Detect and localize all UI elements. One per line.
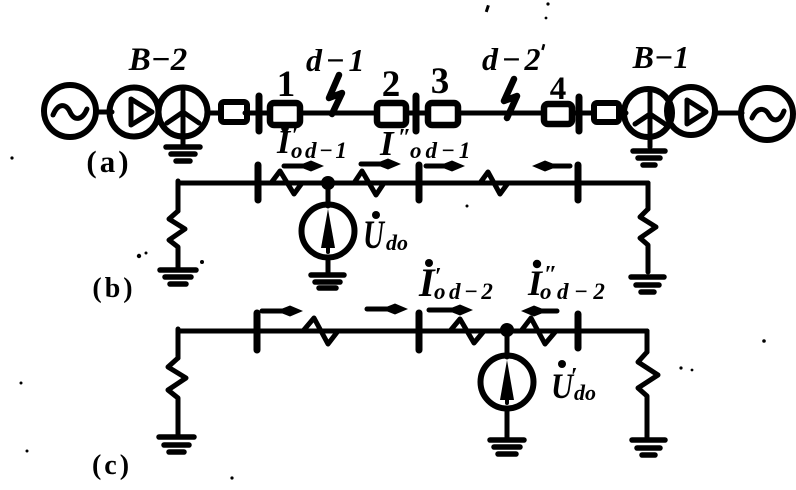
resistor 2 (c) <box>450 319 484 343</box>
ground left (c) <box>159 437 194 452</box>
bus tick 2a <box>413 96 420 131</box>
bus tick 1a <box>256 96 263 131</box>
current arrow 1 (c) <box>262 306 303 317</box>
current arrow mid (b) <box>426 161 465 172</box>
resistor right branch (b) <box>640 209 656 272</box>
wire <box>715 111 742 116</box>
fault bolt d-2 <box>504 79 517 118</box>
breaker 3 <box>428 103 458 125</box>
label U_do <box>363 211 408 257</box>
svg-text:(c): (c) <box>92 450 132 481</box>
svg-text:I: I <box>379 124 395 163</box>
transformer B-1 star winding <box>624 89 672 147</box>
bus tick 1c <box>254 313 261 350</box>
resistor 1 (c) <box>303 318 338 344</box>
ground right (b) <box>631 277 664 292</box>
wire <box>326 257 331 272</box>
wire <box>458 111 544 116</box>
svg-text:2: 2 <box>382 64 401 105</box>
wire main line (b) <box>178 181 648 186</box>
breaker box (right) <box>594 103 619 122</box>
wire source drop (c) <box>505 335 510 357</box>
wire right drop (c) <box>645 331 650 352</box>
current arrow 4 (c, leftward) <box>521 306 557 317</box>
wire <box>96 110 112 115</box>
wire right drop (b) <box>646 183 651 209</box>
source U_do <box>302 205 355 258</box>
resistor left branch (c) <box>168 358 186 434</box>
resistor 1 (b) <box>262 171 302 194</box>
breaker 1 <box>270 103 300 125</box>
ground left (b) <box>160 270 196 284</box>
svg-text:do: do <box>574 380 596 405</box>
current arrow 2 (c) <box>367 304 408 315</box>
breaker box (left) <box>221 102 247 122</box>
label U'_do <box>551 360 596 406</box>
resistor left branch (b) <box>169 211 185 268</box>
label I'od-1 <box>276 123 349 163</box>
generator G2 <box>44 85 96 137</box>
breaker 4 <box>544 104 572 124</box>
wire <box>572 111 594 116</box>
bus tick 3c <box>575 314 582 348</box>
resistor 3 (c) <box>521 318 556 344</box>
svg-text:od−1: od−1 <box>291 138 349 163</box>
generator G1 <box>741 88 793 140</box>
svg-text:d−1: d−1 <box>306 42 368 78</box>
wire <box>619 111 626 116</box>
label I''od-2 <box>527 260 610 304</box>
wire left drop (b) <box>176 181 181 211</box>
resistor right branch (c) <box>638 352 658 437</box>
transformer B-2 delta winding <box>110 88 159 137</box>
wire <box>245 111 270 116</box>
node junction (b) <box>321 176 335 190</box>
source U'_do <box>481 356 534 409</box>
wire left drop (c) <box>176 329 181 358</box>
svg-text:3: 3 <box>431 61 450 102</box>
current arrow I''od-1 <box>361 159 401 170</box>
bus tick 3b <box>575 165 582 200</box>
wire <box>300 111 377 116</box>
bus tick 1b <box>255 165 262 200</box>
svg-text:(a): (a) <box>86 144 131 179</box>
svg-text:od−1: od−1 <box>410 138 474 163</box>
svg-text:d−2: d−2 <box>482 41 544 77</box>
node junction (c) <box>500 323 514 337</box>
transformer B-2 star winding <box>159 88 208 146</box>
svg-text:od−2: od−2 <box>540 279 610 304</box>
bus tick 2c <box>416 313 423 350</box>
fault bolt d-1 <box>329 75 342 114</box>
svg-text:do: do <box>386 230 408 255</box>
ground source (b) <box>311 275 344 288</box>
label I''od-1 <box>379 124 474 163</box>
wire main line (c) <box>178 329 647 334</box>
ground B-2 neutral <box>166 147 200 161</box>
label I'od-2 <box>418 259 496 305</box>
wire source drop (b) <box>326 187 331 206</box>
wire <box>207 111 220 116</box>
svg-text:1: 1 <box>277 64 296 105</box>
breaker 2 <box>377 103 406 125</box>
current arrow 3 (c) <box>429 305 473 316</box>
svg-text:U: U <box>363 212 386 257</box>
ground B-1 neutral <box>633 151 665 165</box>
wire <box>505 408 510 438</box>
wire <box>406 111 428 116</box>
bus tick 3a <box>576 97 583 131</box>
svg-text:B−2: B−2 <box>128 42 188 78</box>
svg-text:4: 4 <box>550 71 567 107</box>
svg-text:od−2: od−2 <box>434 279 496 304</box>
svg-text:I: I <box>276 124 292 161</box>
resistor 3 (b) <box>470 172 508 194</box>
bus tick 2b <box>416 165 423 200</box>
svg-text:(b): (b) <box>92 273 135 304</box>
svg-text:B−1: B−1 <box>632 39 690 75</box>
ground source (c) <box>490 440 524 454</box>
transformer B-1 delta winding <box>667 87 715 135</box>
resistor 2 (b) <box>334 171 384 195</box>
current arrow right (b, leftward) <box>532 161 570 172</box>
current arrow I'od-1 <box>284 161 324 172</box>
ground right (c) <box>632 440 665 455</box>
